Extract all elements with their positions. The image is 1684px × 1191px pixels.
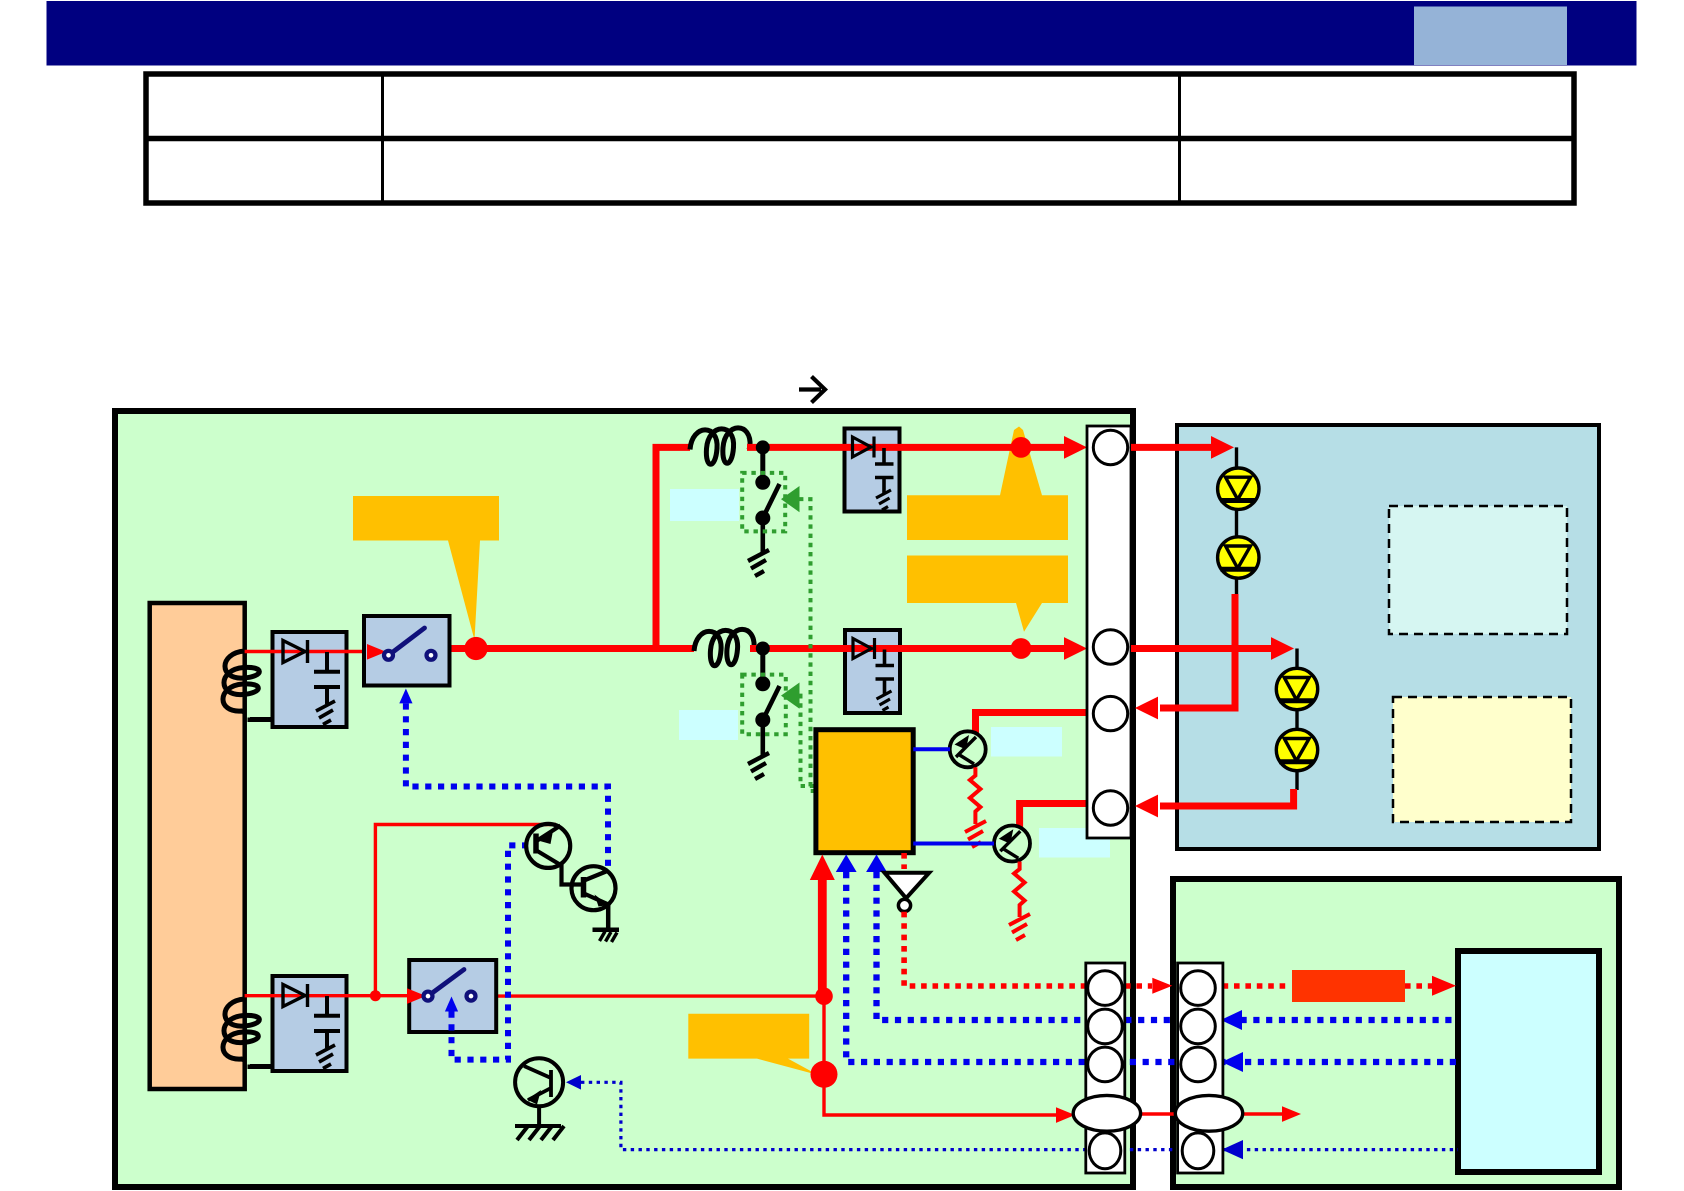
ground below Q2 [593, 905, 620, 930]
red supply arrow into IC U1 [818, 878, 827, 996]
wire from lower coil to rectifier [250, 1065, 274, 1067]
darlington transistor Q1 [526, 824, 570, 868]
rectifier box D4 (middle) [845, 630, 900, 713]
low-voltage transistor Q3 [515, 1058, 563, 1106]
cyan label for PC2 [1039, 828, 1110, 858]
LED chain 1 wire [1235, 447, 1238, 595]
CN1 pin 4 [1093, 791, 1127, 825]
orange callout (relay S1 note) [353, 496, 499, 640]
red arrowhead into S1 [367, 644, 386, 660]
blue wire from IC U1 to PC1 [913, 747, 950, 751]
red signal box in controller board [1292, 970, 1405, 1002]
wire: thick red top row to inductor L1 [653, 444, 691, 451]
inductor L2 (second row) [694, 629, 754, 665]
dashed label box (yellow) in display panel [1393, 697, 1571, 822]
relay K1 contacts and lever [755, 475, 770, 490]
node: junction below IC [815, 987, 833, 1005]
relay contact K2 (second row): tap junction [756, 642, 770, 656]
ground below Q3 [515, 1106, 564, 1140]
green dashed box around K2 [742, 675, 786, 735]
rectifier D3 internals: diode [853, 437, 875, 458]
red ground below R1 [965, 821, 986, 847]
node: junction dot second row [1011, 638, 1032, 659]
inductor L1 (top row) [690, 428, 750, 464]
CN1 pin 1 [1093, 430, 1127, 464]
link wire Q1 to Q2 [562, 865, 584, 885]
rectifier box D2 [273, 976, 347, 1071]
CN1 pin 2 [1093, 630, 1127, 664]
resistor R2 below PC2 (red zigzag) [1014, 862, 1025, 918]
green dashed box around K1 [742, 473, 785, 532]
connector CN1 strip (white) [1087, 426, 1131, 838]
blue dotted control arrow into S2 [445, 997, 458, 1012]
rectifier D4 internals: diode [853, 638, 875, 659]
wire: thick red CN1-1 to display panel [1131, 444, 1212, 451]
cyan label for K1 [670, 489, 739, 521]
resistor R1 below PC1 (red zigzag) [970, 767, 981, 824]
wire: thick red second row to connector CN1-2 [750, 645, 1066, 652]
header table [146, 74, 1574, 203]
red ground below R2 [1009, 914, 1030, 940]
LED D12 [1218, 537, 1259, 578]
orange callout bar 1 with spike up [907, 427, 1068, 541]
CN3 pin 5 [1182, 1133, 1214, 1169]
wire: thick red from CN1-3 to photocoupler PC1 [976, 713, 1091, 734]
CN3 pin 4 (wide ellipse) [1175, 1095, 1242, 1131]
wire: thick red CN1-2 to display panel [1131, 645, 1272, 652]
inverter gate [885, 873, 930, 899]
CN1 pin 3 [1093, 696, 1127, 730]
CN2 pin 3 [1088, 1047, 1123, 1082]
wire: thick red from CN1-4 to photocoupler PC2 [1020, 804, 1090, 828]
wire: thick red return from LED chain 1 to CN1-3 [1160, 594, 1235, 708]
node: big junction dot at callout target [811, 1061, 838, 1088]
blue dotted control arrow into S1 [399, 689, 412, 704]
wire: thick red return from LED chain 2 to CN1-4 [1160, 789, 1294, 806]
LED D11 [1218, 468, 1259, 509]
dashed label box (cyan) in display panel [1389, 506, 1567, 634]
switch S1 lever [389, 628, 425, 655]
rectifier box D1 [273, 632, 347, 727]
darlington transistor Q2 [572, 866, 616, 910]
wire: thin red between connector ellipses [1125, 1112, 1180, 1115]
connector CN2 strip (main board side) [1086, 963, 1125, 1173]
CN2 pin 5 [1089, 1133, 1121, 1169]
orange callout bar 2 with spike down [907, 556, 1068, 632]
switch S2 lever [428, 970, 464, 997]
display panel box (top right) [1177, 425, 1599, 849]
CN3 pin 2 [1181, 1009, 1216, 1044]
wire: thin red up to darlington driver [375, 825, 556, 996]
transformer primary coil lower [223, 999, 259, 1060]
arrow glyph above diagram [799, 377, 825, 403]
orange callout (controller note) [688, 1014, 818, 1075]
blue dotted wire into Q3 base [566, 1075, 581, 1090]
connector CN3 strip (controller side) [1178, 963, 1223, 1173]
CN2 pin 4 (wide ellipse) [1073, 1095, 1140, 1131]
power control IC U1 [816, 730, 913, 853]
rectifier D1 internals: capacitor and ground [314, 652, 340, 704]
wire: thick red top row to connector CN1-1 [747, 444, 1066, 451]
green control arrow into K1 [781, 486, 800, 512]
node: junction on D2 output [370, 990, 381, 1001]
rectifier box D3 (top middle) [845, 429, 900, 512]
CN3 pin 1 [1181, 971, 1216, 1006]
relay contact K1 (top): tap junction [756, 440, 770, 454]
LED chain 2 wire [1295, 649, 1298, 791]
wire: thin red from D1 to relay switch S1 [245, 650, 370, 653]
CPU box (cyan) in controller board [1458, 951, 1599, 1172]
red arrowhead into S2 [407, 988, 426, 1004]
title bar [47, 1, 1637, 66]
wire: thin red from S2 output to controller feed [471, 994, 824, 997]
cyan label for K2 [679, 710, 738, 740]
rectifier D1 internals: diode [283, 640, 308, 663]
red dashed signal to controller connector [904, 912, 1099, 986]
green dashed control path from IC to K1 [799, 499, 817, 791]
wire: thin red down and right to board connector [824, 996, 1060, 1115]
photocoupler transistor PC2 [994, 826, 1030, 862]
relay K1 ground [760, 518, 765, 554]
rectifier D2 internals: capacitor and ground [314, 996, 340, 1048]
LED D14 [1276, 729, 1317, 770]
relay K2 contacts and lever [755, 676, 770, 691]
CN3 pin 3 [1181, 1047, 1216, 1082]
switch box S1 (relay) [364, 616, 450, 686]
rectifier D3 internals: capacitor and ground [875, 448, 894, 494]
transformer primary coil upper [223, 651, 259, 712]
node: big junction dot on S1 output [464, 637, 487, 660]
wire: thick red riser to top row [653, 444, 660, 652]
switch box S2 (relay) [409, 960, 496, 1032]
CN2 pin 1 [1088, 971, 1123, 1006]
blue dashed feedback arrow 1 into IC U1 [836, 855, 857, 873]
wire: thin red from D2 to relay switch S2 [245, 994, 410, 997]
blue wire from IC U1 to PC2 [913, 842, 994, 846]
rectifier D4 internals: capacitor and ground [876, 650, 895, 696]
red dashed signal from IC U1 through inverter [901, 853, 907, 869]
photocoupler transistor PC1 [950, 731, 986, 767]
title bar highlight box [1414, 7, 1567, 66]
relay K2 ground [760, 720, 765, 757]
CN2 pin 2 [1088, 1009, 1123, 1044]
rectifier D2 internals: diode [283, 984, 308, 1007]
wire from upper coil to rectifier [250, 718, 274, 720]
red dashed signal into CPU [1405, 983, 1433, 989]
node: junction dot top row [1011, 437, 1032, 458]
wire: thin red into controller board [1242, 1112, 1286, 1115]
main power-supply board box [115, 411, 1133, 1187]
green dashed control path from IC to K2 [799, 696, 817, 786]
green control arrow into K2 [781, 683, 800, 709]
blue dashed feedback arrow 2 into IC U1 [866, 855, 887, 873]
cyan label for PC1 [991, 727, 1062, 757]
transformer T1 [150, 603, 245, 1089]
wire: thick red bus from S1 output [433, 645, 694, 652]
controller board box (bottom right) [1173, 879, 1619, 1187]
LED D13 [1276, 668, 1317, 709]
